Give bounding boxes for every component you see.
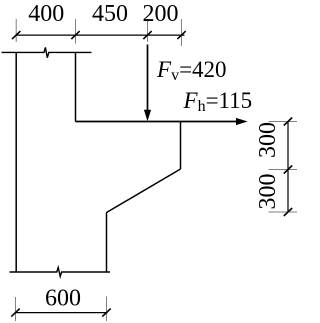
Fh arrowhead bbox=[236, 118, 248, 125]
tick at x=15.5 (bottom dim) bbox=[11, 309, 19, 317]
svg-text:Fh=115: Fh=115 bbox=[183, 88, 253, 115]
tick at x=181.5 bbox=[177, 31, 185, 39]
svg-text:450: 450 bbox=[92, 1, 128, 27]
svg-text:400: 400 bbox=[28, 1, 64, 27]
extension line at x=147.5 (top dim) bbox=[147, 19, 149, 42]
extension line at x=16 (top dim) bbox=[15, 19, 17, 42]
svg-text:600: 600 bbox=[45, 286, 81, 312]
extension line at x=181.5 (top dim) bbox=[181, 19, 183, 46]
extension line at y=169.5 (right dim) bbox=[269, 169, 298, 171]
extension line at y=121.5 (right dim) bbox=[269, 121, 298, 123]
tick at y=169.5 bbox=[284, 166, 292, 174]
column bottom edge with break symbol bbox=[10, 267, 111, 276]
Fv arrowhead bbox=[144, 110, 151, 122]
tick at y=121.5 bbox=[284, 118, 292, 126]
svg-text:300: 300 bbox=[255, 122, 281, 158]
corbel outer face bbox=[180, 122, 182, 170]
corbel sloped underside bbox=[107, 169, 181, 213]
lower column right face bbox=[106, 213, 108, 273]
extension line at x=75.5 (top dim) bbox=[75, 19, 77, 44]
extension line at x=15.5 (bottom dim) bbox=[15, 297, 17, 321]
tick at x=16.2 bbox=[12, 31, 20, 39]
column top edge with break symbol bbox=[2, 47, 92, 57]
tick at x=147.5 bbox=[143, 31, 151, 39]
svg-text:Fv=420: Fv=420 bbox=[156, 57, 227, 84]
corbel top edge + Fh force line bbox=[76, 121, 239, 123]
svg-text:300: 300 bbox=[255, 174, 281, 210]
tick at x=75.5 bbox=[71, 31, 79, 39]
svg-text:200: 200 bbox=[143, 1, 179, 27]
column right face (upper) bbox=[75, 52, 77, 121]
Fv force line bbox=[147, 45, 149, 112]
tick at x=106.5 (bottom dim) bbox=[102, 309, 110, 317]
column left face bbox=[15, 52, 17, 272]
right dimension line bbox=[287, 122, 289, 213]
bottom dimension line bbox=[16, 312, 108, 314]
extension line at y=212 (right dim) bbox=[269, 211, 298, 213]
top dimension line bbox=[16, 34, 185, 36]
extension line at x=106.5 (bottom dim) bbox=[106, 297, 108, 322]
tick at y=212 bbox=[284, 208, 292, 216]
